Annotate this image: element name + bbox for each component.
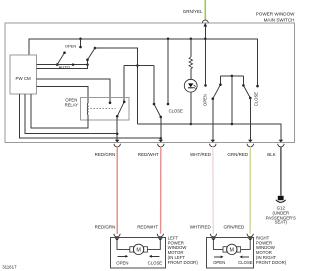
- wire top rail: [29, 39, 258, 86]
- connector left motor 2: [157, 234, 163, 237]
- svg-text:GRN/YEL: GRN/YEL: [183, 9, 203, 14]
- wire bottom rail to BLK: [137, 124, 281, 140]
- wire AUTO net branch: [124, 65, 154, 67]
- PW CM control module: [10, 55, 36, 94]
- connector right motor 1: [210, 234, 216, 237]
- power window main switch box: [5, 23, 295, 142]
- arrow open right motor: [214, 256, 221, 258]
- contact rocker CLOSE: [256, 85, 259, 88]
- relay contact B: [123, 101, 126, 104]
- node rail-OPEN stub: [79, 38, 82, 41]
- wire relay pivot down: [116, 116, 118, 140]
- motor M right brushes: [223, 247, 227, 252]
- wire PW CM pin3 to relay contact A: [36, 79, 110, 103]
- right power window motor box: [206, 238, 253, 269]
- svg-text:CLOSE: CLOSE: [253, 92, 258, 106]
- node rocker center: [231, 75, 234, 78]
- node rail-GRN/YEL: [204, 38, 207, 41]
- connector main box bottom 3: [211, 140, 216, 143]
- wire WHT/RED: [212, 147, 214, 234]
- connector main box bottom 2: [159, 140, 164, 143]
- switch rocker right blade: [243, 85, 250, 98]
- relay OPEN RELAY box: [81, 98, 130, 121]
- svg-text:RELAY: RELAY: [65, 103, 79, 108]
- wire GRN/YEL from top: [204, 0, 206, 20]
- left power window motor box: [110, 238, 165, 269]
- svg-text:GRN/RED: GRN/RED: [227, 152, 249, 157]
- connector left motor 1: [114, 234, 120, 237]
- connector main box bottom 5: [279, 140, 284, 143]
- switch CLOSE blade: [154, 105, 160, 117]
- svg-text:RED/WHT: RED/WHT: [138, 152, 159, 157]
- wire BLK: [280, 147, 282, 196]
- svg-text:POWER WINDOW: POWER WINDOW: [256, 11, 295, 16]
- contact rocker OPEN: [204, 84, 207, 87]
- svg-text:FRONT DOOR): FRONT DOOR): [168, 260, 199, 265]
- wire to relay contact B: [123, 66, 125, 102]
- motor M right wiring: [213, 241, 223, 250]
- arrow close right motor: [242, 256, 249, 258]
- svg-text:PW CM: PW CM: [16, 76, 31, 81]
- wire rocker left down: [212, 99, 214, 141]
- relay coil: [86, 103, 89, 115]
- wire LED to bottom rail: [190, 92, 192, 124]
- svg-text:CLOSE: CLOSE: [169, 109, 183, 114]
- ground G12: [278, 196, 284, 200]
- wire resistor feed: [190, 39, 192, 57]
- connector main box bottom 1: [115, 140, 120, 143]
- wire rocker right down: [249, 98, 251, 140]
- switch rocker right stub: [242, 76, 244, 86]
- node LED-rail: [190, 123, 193, 126]
- svg-text:CLOSE: CLOSE: [238, 260, 253, 265]
- switch OPEN blade: [57, 53, 64, 65]
- svg-text:OPEN: OPEN: [65, 44, 76, 49]
- svg-text:CLOSE: CLOSE: [148, 261, 163, 266]
- switch rocker left stub: [219, 76, 221, 85]
- svg-text:WHT/RED: WHT/RED: [190, 225, 212, 230]
- resistor R (illumination): [189, 57, 192, 68]
- wire PW CM bottom pin to close-pivot rail: [19, 94, 160, 138]
- wire coil bottom to PW CM: [31, 94, 88, 128]
- relay blade: [117, 102, 124, 117]
- motor M left brushes: [130, 247, 134, 252]
- node pivot-rail: [116, 132, 119, 135]
- svg-text:WHT/RED: WHT/RED: [190, 152, 212, 157]
- svg-text:OPEN: OPEN: [213, 260, 225, 265]
- wire PW CM pin2: [36, 65, 87, 69]
- switch passenger rocker bracket: [220, 75, 243, 77]
- wire resistor to LED: [190, 69, 192, 80]
- svg-text:OPEN: OPEN: [116, 261, 128, 266]
- connector main box bottom 4: [248, 140, 253, 143]
- motor M left wiring: [117, 241, 130, 250]
- svg-text:M: M: [136, 247, 141, 253]
- svg-text:M: M: [230, 247, 235, 253]
- wire to CLOSE left contact: [153, 66, 155, 105]
- svg-text:OPEN: OPEN: [202, 94, 207, 106]
- connector C top (arc and arrow): [202, 20, 208, 23]
- svg-text:OPEN: OPEN: [65, 97, 77, 102]
- svg-text:MAIN SWITCH: MAIN SWITCH: [264, 17, 295, 22]
- switch CLOSE contacts: [167, 39, 169, 104]
- switch OPEN contact stub: [80, 39, 82, 47]
- svg-text:GRN/RED: GRN/RED: [224, 225, 246, 230]
- svg-text:RED/GRN: RED/GRN: [95, 225, 116, 230]
- arrow close left motor: [152, 255, 160, 257]
- wire RED/GRN: [116, 147, 118, 234]
- motor M right: [227, 244, 237, 254]
- LED illumination: [184, 79, 197, 92]
- relay dashed actuator line: [91, 108, 116, 110]
- motor M left: [133, 244, 143, 254]
- wire PW CM pin1 AUTO line: [36, 64, 87, 66]
- wire CLOSE pivot down: [160, 117, 162, 140]
- svg-text:FRONT DOOR): FRONT DOOR): [256, 260, 287, 265]
- arrow open left motor: [118, 255, 126, 257]
- svg-text:RED/GRN: RED/GRN: [95, 152, 116, 157]
- svg-text:AUTO: AUTO: [59, 65, 70, 70]
- svg-text:RED/WHT: RED/WHT: [137, 225, 158, 230]
- wire RED/WHT: [160, 147, 162, 234]
- wire PW CM pin4 to relay coil: [36, 87, 88, 104]
- node close-pivot rail: [160, 137, 163, 140]
- wire from connector to rail: [204, 26, 206, 39]
- node rail-CLOSE contact: [167, 38, 170, 41]
- svg-text:BLK: BLK: [267, 152, 276, 157]
- svg-text:SEAT): SEAT): [275, 220, 288, 225]
- relay contact A: [109, 101, 112, 104]
- wire rocker center to rail: [231, 76, 233, 124]
- wire PW CM bottom pin to pivot rail: [25, 94, 117, 134]
- node AUTO net T: [136, 64, 139, 67]
- connector right motor 2: [247, 234, 253, 237]
- switch AUTO blade: [87, 60, 89, 65]
- wire AUTO net top: [95, 48, 137, 124]
- wire GRN/RED: [249, 147, 251, 234]
- node rail-resistor: [190, 38, 193, 41]
- svg-text:311617: 311617: [2, 264, 17, 269]
- switch rocker left blade: [213, 85, 221, 99]
